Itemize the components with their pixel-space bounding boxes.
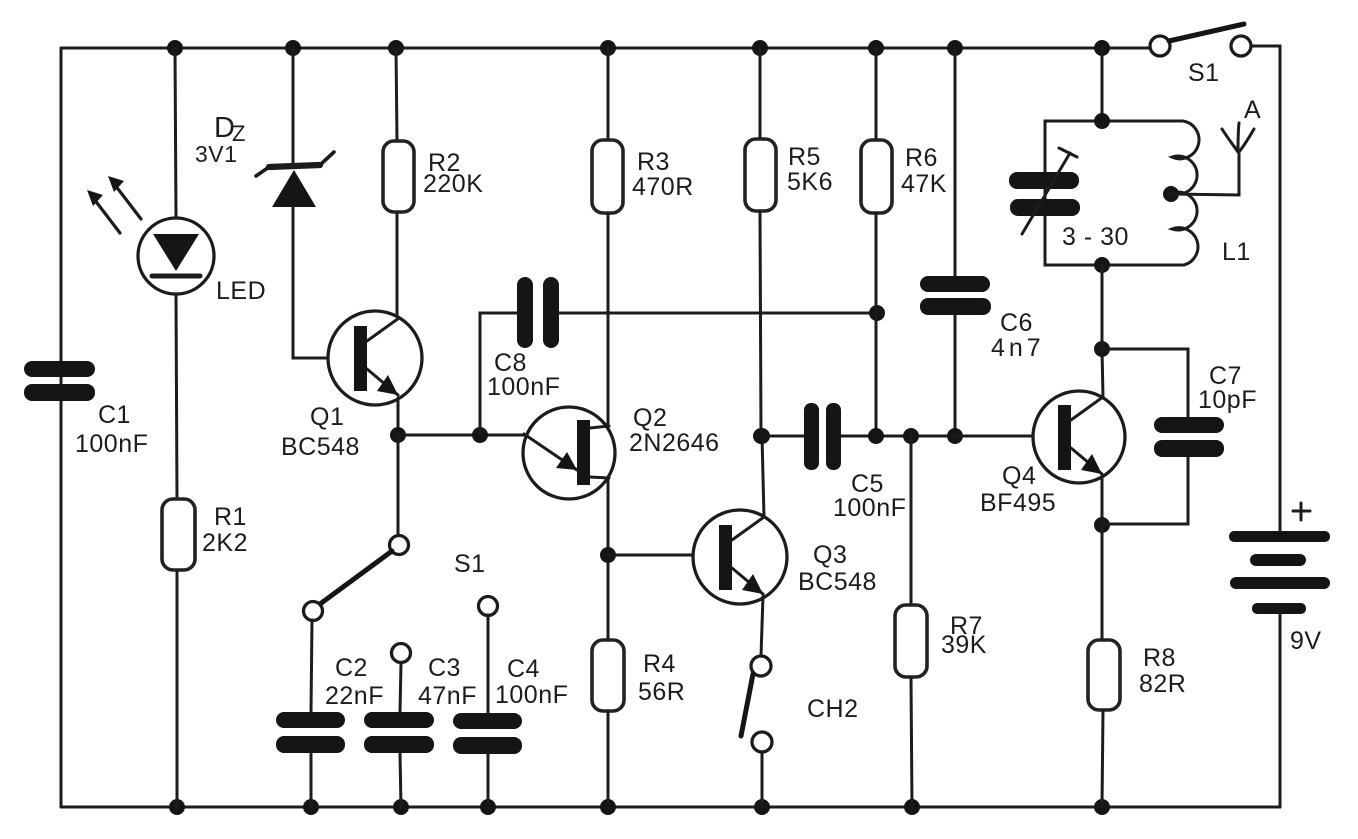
svg-text:Q3: Q3 (813, 541, 847, 569)
svg-text:C3: C3 (428, 654, 461, 682)
svg-text:100nF: 100nF (495, 681, 568, 709)
svg-text:10pF: 10pF (1198, 386, 1257, 414)
svg-text:R1: R1 (214, 503, 247, 531)
svg-text:39K: 39K (941, 631, 987, 659)
svg-text:2N2646: 2N2646 (629, 429, 720, 457)
svg-text:S1: S1 (1188, 59, 1220, 87)
svg-text:4n7: 4n7 (991, 334, 1045, 362)
svg-text:9V: 9V (1290, 627, 1322, 655)
svg-text:Q1: Q1 (310, 403, 344, 431)
svg-text:L1: L1 (1222, 238, 1251, 266)
svg-text:LED: LED (216, 277, 266, 305)
svg-text:C1: C1 (98, 401, 131, 429)
svg-text:C6: C6 (1000, 309, 1033, 337)
svg-text:BC548: BC548 (798, 568, 877, 596)
svg-text:Q4: Q4 (1002, 462, 1036, 490)
svg-text:100nF: 100nF (487, 373, 560, 401)
svg-text:S1: S1 (454, 550, 486, 578)
svg-text:A: A (1244, 96, 1261, 124)
svg-text:CH2: CH2 (807, 695, 859, 723)
svg-text:C2: C2 (335, 654, 368, 682)
svg-text:100nF: 100nF (833, 494, 906, 522)
svg-text:R4: R4 (643, 650, 676, 678)
svg-text:R3: R3 (637, 148, 670, 176)
svg-text:R5: R5 (788, 143, 821, 171)
svg-text:220K: 220K (423, 170, 483, 198)
svg-text:47K: 47K (901, 170, 947, 198)
svg-text:5K6: 5K6 (787, 168, 833, 196)
svg-text:3V1: 3V1 (195, 141, 237, 167)
svg-text:470R: 470R (632, 173, 694, 201)
svg-text:56R: 56R (638, 678, 685, 706)
svg-text:BF495: BF495 (980, 489, 1056, 517)
svg-text:C4: C4 (507, 655, 540, 683)
svg-text:22nF: 22nF (325, 682, 384, 710)
svg-text:R6: R6 (905, 144, 938, 172)
svg-text:R8: R8 (1143, 644, 1176, 672)
svg-text:BC548: BC548 (281, 433, 360, 461)
svg-text:Q2: Q2 (633, 404, 667, 432)
svg-text:47nF: 47nF (418, 682, 477, 710)
svg-text:82R: 82R (1139, 670, 1186, 698)
svg-text:2K2: 2K2 (202, 529, 248, 557)
svg-text:100nF: 100nF (75, 430, 148, 458)
svg-text:3 - 30: 3 - 30 (1062, 223, 1129, 251)
